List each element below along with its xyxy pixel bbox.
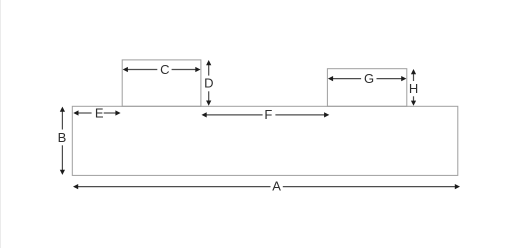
left tab rectangle: [122, 60, 201, 106]
dimension G: [328, 71, 407, 86]
dimension C: [123, 62, 201, 77]
svg-text:G: G: [364, 71, 374, 86]
profile body rectangle: [72, 106, 458, 175]
dimension F: [202, 107, 330, 122]
svg-text:B: B: [58, 130, 67, 145]
dimension D: [204, 60, 213, 106]
svg-text:E: E: [95, 106, 104, 121]
left page border: [0, 0, 2, 248]
right tab rectangle: [327, 69, 406, 107]
dimension A: [73, 179, 460, 194]
dimension E: [73, 106, 120, 121]
svg-text:D: D: [204, 76, 213, 91]
svg-text:F: F: [264, 107, 272, 122]
svg-text:A: A: [272, 179, 281, 194]
dimension H: [409, 69, 418, 106]
svg-text:H: H: [409, 81, 418, 96]
dimension B: [58, 107, 67, 175]
svg-text:C: C: [160, 62, 169, 77]
